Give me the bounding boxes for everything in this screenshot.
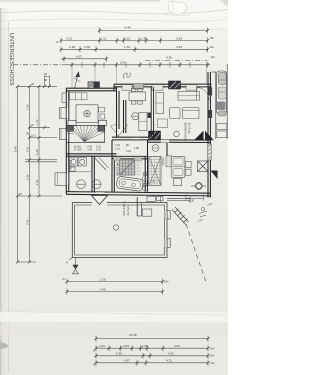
- bathtub: [116, 176, 143, 192]
- axis dash-dot right: [145, 60, 208, 62]
- vert dim line v2: [29, 86, 31, 262]
- svg-text:2.04: 2.04: [120, 61, 126, 65]
- exterior stair hatched bar: [172, 207, 189, 225]
- circled symbol near chimney: [152, 145, 159, 152]
- washer box 2: [78, 158, 86, 166]
- svg-text:3.01: 3.01: [66, 36, 72, 40]
- svg-text:2.11: 2.11: [101, 36, 107, 40]
- circled 1 living: [174, 131, 180, 137]
- hobby chairs: [185, 162, 191, 168]
- svg-text:10.48: 10.48: [129, 333, 137, 337]
- outer wall lines: [72, 203, 167, 258]
- piers on right wall: [208, 88, 212, 96]
- right pilaster 2: [167, 239, 170, 248]
- svg-text:1.96: 1.96: [141, 36, 147, 40]
- washer box 1: [70, 158, 78, 166]
- ticks: [16, 85, 51, 264]
- door gap bottom wall: [96, 192, 104, 194]
- light well 1: [60, 108, 67, 119]
- drain circle 2: [92, 180, 101, 189]
- row 4: [96, 362, 208, 364]
- wall pier right of stair: [98, 126, 105, 132]
- vert dim line v4: [44, 76, 46, 87]
- svg-text:2.36: 2.36: [25, 219, 29, 225]
- connectors: [18, 85, 58, 87]
- bench mark symbols right: [199, 207, 207, 217]
- dim row4 line: [61, 58, 107, 60]
- washing machine circle center: [132, 113, 139, 120]
- kitchen counter: [139, 113, 147, 131]
- pencil squiggle annotation: [123, 73, 130, 80]
- svg-text:3.63: 3.63: [174, 344, 180, 348]
- svg-text:1.26: 1.26: [142, 344, 148, 348]
- interior wall stub keller top: [136, 197, 138, 216]
- elevation bowtie: [73, 265, 79, 270]
- svg-text:4.36: 4.36: [166, 55, 172, 59]
- svg-text:2.76: 2.76: [100, 277, 106, 281]
- horizontal crease band lower: [0, 312, 228, 322]
- thin vertical extension at x72: [71, 65, 73, 88]
- svg-text:9.48: 9.48: [125, 26, 131, 30]
- living room armchair 1: [170, 108, 181, 119]
- bath left wall: [111, 140, 113, 192]
- svg-text:31.10 qm: 31.10 qm: [188, 123, 192, 135]
- wall pier left of stair: [67, 126, 74, 132]
- window top 3: [186, 85, 197, 91]
- window sill boxes on top wall: [122, 85, 197, 91]
- left fold line: [8, 22, 10, 372]
- paper tear top right: [168, 1, 187, 14]
- svg-text:9.48: 9.48: [13, 146, 17, 152]
- downpipe rect on outer left wall: [62, 93, 66, 103]
- room A outline: [76, 105, 98, 123]
- dim overall 9.48 line: [100, 30, 208, 32]
- inner corridor wall vertical: [123, 100, 125, 133]
- marks below bottom wall: [186, 194, 204, 200]
- svg-text:2.63: 2.63: [124, 36, 130, 40]
- bidet: [144, 184, 147, 187]
- WC right wall: [91, 156, 93, 191]
- door leaf tall rect: [139, 87, 164, 137]
- big black triangles (stair marker): [195, 131, 204, 140]
- coffee table living: [158, 119, 168, 128]
- central horizontal wall right segment: [148, 139, 210, 141]
- dim row3 line: [61, 48, 208, 50]
- sink small: [70, 167, 76, 171]
- svg-text:1.13: 1.13: [35, 119, 39, 125]
- light well 2: [60, 129, 67, 140]
- door labels small: [115, 144, 139, 153]
- svg-text:1.88: 1.88: [134, 147, 139, 150]
- entry wedge black: [210, 171, 217, 180]
- svg-text:5.36: 5.36: [116, 352, 122, 356]
- svg-text:31.4 qm: 31.4 qm: [126, 205, 130, 215]
- window top 1: [122, 85, 132, 91]
- dim labels top: [56, 26, 217, 65]
- inner wall stair/WC vertical: [116, 91, 118, 137]
- chimney top (half dark): [88, 82, 100, 89]
- stair treads: [66, 125, 104, 141]
- door gap top wall: [134, 85, 144, 87]
- left scan edge: [0, 8, 1, 375]
- svg-text:3.63: 3.63: [176, 36, 182, 40]
- door gap central wall: [133, 138, 141, 140]
- svg-text:26: 26: [31, 82, 35, 86]
- svg-text:WASCHK.: WASCHK.: [70, 159, 73, 170]
- north arrow: [74, 72, 81, 89]
- window gap left wall 3: [67, 174, 69, 184]
- inner pier marks: [165, 211, 167, 219]
- stair well outline: [66, 125, 104, 142]
- stair labels: [74, 146, 102, 152]
- hatched strip right wall: [208, 144, 212, 160]
- paper background: [0, 0, 228, 375]
- window gap left wall 2: [67, 129, 69, 139]
- svg-text:3.63: 3.63: [176, 45, 182, 49]
- WC room fixtures: [69, 158, 109, 189]
- door swing WC: [94, 158, 106, 171]
- white pier box right: [99, 120, 107, 125]
- small rect above keller wall: [147, 197, 156, 202]
- dim row5 line above wall: [13, 64, 62, 66]
- vertical room label WOHNEN: [184, 123, 192, 141]
- top wall left portion: [66, 87, 116, 89]
- door sill hobby left wall: [166, 156, 171, 167]
- dim row B: [67, 291, 163, 293]
- wall below stairs: [66, 153, 116, 155]
- vert line below keller: [75, 257, 77, 268]
- svg-text:WOHN-ESSZI.: WOHN-ESSZI.: [184, 123, 188, 141]
- box below chest: [173, 179, 181, 186]
- bottom wall of main wing: [66, 194, 210, 196]
- crossed box (shaft): [198, 161, 209, 172]
- dark block on wall: [148, 113, 151, 119]
- left outer wall: [65, 88, 67, 194]
- bath/sauna divider: [144, 156, 146, 191]
- small fixture room A right: [100, 114, 105, 119]
- dim row A: [67, 281, 163, 283]
- bath tile grid: [114, 156, 142, 176]
- svg-text:1.01: 1.01: [96, 149, 101, 152]
- sideboard top right: [178, 92, 200, 101]
- circle-diamond symbol: [191, 183, 206, 190]
- chimney on top wall right (dark hatched): [169, 81, 181, 89]
- top wall right portion: [114, 83, 212, 85]
- svg-text:DU: DU: [152, 180, 155, 184]
- bath top wall: [112, 155, 148, 157]
- right outer wall: [207, 72, 209, 198]
- svg-text:26: 26: [44, 72, 48, 76]
- garage boxes below: [217, 124, 227, 138]
- wall jog: [113, 84, 115, 91]
- svg-text:1.38: 1.38: [69, 45, 75, 49]
- wall kitchen/living vertical: [150, 87, 152, 137]
- row 2: [96, 347, 208, 349]
- living room sofa: [183, 108, 200, 119]
- light well 3: [55, 173, 66, 186]
- svg-text:1.38: 1.38: [35, 149, 39, 155]
- sauna vertical label: [152, 158, 165, 184]
- shower square in bath: [120, 160, 135, 175]
- keller label: [122, 201, 130, 215]
- white pier box left: [68, 120, 76, 125]
- svg-text:1.26: 1.26: [25, 104, 29, 110]
- tick at 160: [160, 196, 162, 203]
- svg-text:3.38: 3.38: [84, 45, 90, 49]
- toilet: [143, 173, 148, 192]
- svg-text:-1.34: -1.34: [87, 149, 93, 152]
- svg-text:4.43: 4.43: [99, 344, 105, 348]
- light wells outside left wall: [55, 108, 66, 186]
- window openings in outer walls (lighter): [68, 86, 208, 194]
- hobby desk: [171, 156, 191, 185]
- door sills bath top wall: [114, 157, 122, 161]
- window top 2: [152, 85, 163, 91]
- box fixture keller: [142, 209, 152, 216]
- chimney mid right (dark hatched): [149, 131, 161, 140]
- svg-text:4.71: 4.71: [166, 359, 172, 363]
- svg-text:SAUNA: SAUNA: [161, 158, 164, 166]
- svg-text:36: 36: [44, 78, 48, 82]
- vert dim line v1: [17, 86, 19, 262]
- cupboard living side: [156, 93, 164, 114]
- round table with cross: [84, 110, 90, 116]
- svg-text:KELLER (7): KELLER (7): [122, 201, 126, 215]
- svg-text:4.37: 4.37: [76, 55, 82, 59]
- svg-text:0°: 0°: [66, 262, 68, 265]
- svg-text:2.04: 2.04: [126, 150, 131, 153]
- dashed property line: [186, 224, 206, 282]
- corner tick bottom-left keller: [70, 257, 73, 260]
- svg-text:BAD 6.1 qm: BAD 6.1 qm: [116, 163, 119, 176]
- svg-text:1.34: 1.34: [124, 45, 130, 49]
- bottom labels: [94, 333, 216, 366]
- car body dark: [218, 73, 226, 85]
- wall extension right of keller: [167, 197, 190, 199]
- sauna diagonal hatch: [149, 156, 161, 185]
- row 3: [96, 355, 208, 357]
- svg-text:11½: 11½: [31, 134, 35, 138]
- circled number keller: [113, 225, 118, 230]
- svg-text:26: 26: [25, 131, 29, 135]
- small fixture room A top right: [99, 108, 105, 112]
- overall 10.48: [96, 338, 208, 340]
- dim row2 line: [61, 40, 208, 42]
- central horizontal wall left segment: [112, 136, 150, 138]
- car outline: [217, 71, 227, 114]
- hobby room left wall: [166, 140, 168, 156]
- svg-text:1.01: 1.01: [115, 148, 120, 151]
- svg-text:1.01: 1.01: [25, 146, 29, 152]
- svg-text:4.45: 4.45: [100, 287, 106, 291]
- svg-text:4.57: 4.57: [124, 359, 130, 363]
- cupboard top-left room: [70, 93, 88, 100]
- drain circle 1: [77, 180, 86, 189]
- window gap left wall 1: [67, 108, 69, 118]
- right pilaster 1: [167, 211, 170, 220]
- door swing V below central wall: [111, 125, 129, 138]
- bottom-left fold mark: [0, 342, 9, 349]
- left rotated labels: [13, 72, 47, 225]
- svg-text:1.01: 1.01: [35, 179, 39, 185]
- kitchen table and chairs: [129, 88, 146, 104]
- door box in top wall opening: [134, 84, 144, 89]
- door arc top-right: [196, 87, 209, 100]
- vertical dim ext right: [206, 62, 208, 84]
- svg-text:UNTERGESCHOSS: UNTERGESCHOSS: [8, 33, 14, 86]
- svg-text:17.5/25: 17.5/25: [74, 149, 83, 152]
- svg-text:4.41: 4.41: [168, 352, 174, 356]
- door sill right-central wall: [161, 140, 170, 143]
- svg-text:2.36: 2.36: [25, 174, 29, 180]
- vert dim line v3: [38, 86, 40, 196]
- entrance triangle: [92, 196, 108, 205]
- svg-text:2.84: 2.84: [123, 344, 129, 348]
- top creases: [0, 10, 228, 14]
